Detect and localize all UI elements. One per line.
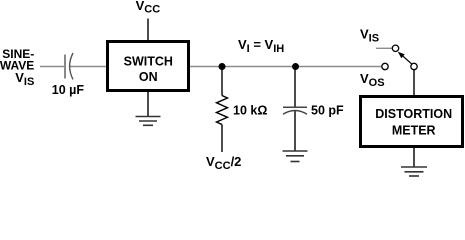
svg-text:10 µF: 10 µF xyxy=(52,83,85,97)
svg-text:10 kΩ: 10 kΩ xyxy=(233,104,267,118)
svg-text:50 pF: 50 pF xyxy=(311,104,344,118)
svg-text:VI = VIH: VI = VIH xyxy=(238,37,284,55)
svg-text:VCC: VCC xyxy=(136,0,161,16)
svg-text:VIS: VIS xyxy=(15,70,34,88)
svg-text:VOS: VOS xyxy=(360,71,385,89)
svg-text:SWITCH: SWITCH xyxy=(124,54,173,68)
svg-text:VCC/2: VCC/2 xyxy=(206,154,241,172)
svg-text:VIS: VIS xyxy=(360,27,379,45)
svg-text:DISTORTION: DISTORTION xyxy=(375,107,452,121)
svg-text:ON: ON xyxy=(139,70,158,84)
svg-text:METER: METER xyxy=(392,124,436,138)
